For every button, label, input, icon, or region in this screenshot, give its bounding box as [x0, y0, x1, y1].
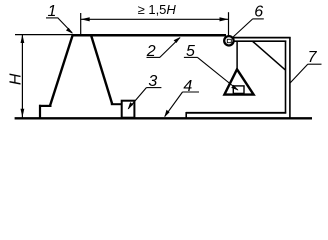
top dimension line [81, 18, 229, 20]
pile right slope [91, 34, 112, 104]
label 2 leader arrow [174, 37, 181, 43]
mast right line [289, 37, 291, 119]
label 5 underline [184, 56, 198, 58]
label 3 leader [128, 88, 146, 109]
svg-text:7: 7 [308, 49, 318, 66]
label 4 leader [165, 92, 183, 117]
pile right berm [111, 103, 123, 105]
bottom beam end cap [185, 112, 187, 118]
label 1 leader [58, 18, 72, 33]
label 1 leader arrow [66, 28, 73, 34]
pulley axle square [227, 39, 231, 42]
pile left berm [39, 105, 52, 107]
svg-text:6: 6 [254, 3, 263, 20]
pile top edge and cable 2 [72, 34, 226, 37]
extension line right [228, 12, 230, 36]
label 5 leader arrow [231, 85, 238, 91]
label 4 leader arrow [164, 110, 169, 117]
mast left line [285, 41, 287, 114]
top dimension left arrow [81, 17, 90, 21]
sampler triangle 5 [224, 69, 253, 94]
corner brace [253, 42, 285, 70]
sampler inner box [233, 86, 244, 94]
label 1 underline [46, 17, 58, 19]
label 6 leader [233, 19, 253, 37]
jib bottom line [233, 40, 286, 42]
label 3 underline [146, 87, 161, 89]
label 3 leader arrow [128, 102, 133, 109]
pile left foot [39, 105, 41, 119]
label 7 underline [308, 63, 322, 65]
label 6 underline [253, 18, 264, 20]
hanger line [236, 41, 238, 69]
svg-text:≥ 1,5H: ≥ 1,5H [138, 2, 177, 17]
dimension H vertical line [21, 35, 23, 118]
label 7 leader [290, 64, 308, 83]
dimension H top arrow [21, 34, 25, 43]
label 5 leader [198, 57, 238, 90]
svg-text:H: H [8, 73, 25, 85]
dimension H bottom arrow [21, 109, 25, 118]
label 2 underline [147, 56, 161, 58]
bottom beam [186, 112, 286, 114]
crest extension line [15, 34, 72, 36]
box 3 (counterweight) [122, 101, 135, 118]
jib top line [233, 37, 291, 39]
pulley 6 [224, 36, 233, 45]
label 4 underline [182, 91, 199, 93]
extension line left [80, 13, 82, 34]
top dimension right arrow [220, 17, 229, 21]
ground line 4 [15, 117, 312, 119]
pile left slope [50, 34, 73, 105]
label 2 leader [160, 38, 180, 58]
